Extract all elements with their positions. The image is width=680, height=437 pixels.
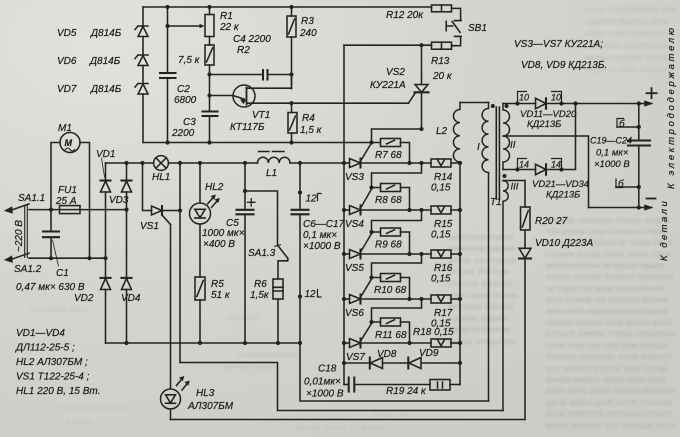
svg-text:VT1: VT1: [252, 110, 270, 121]
wire output minus row: [589, 207, 652, 209]
svg-text:КД213Б: КД213Б: [546, 190, 580, 201]
button SB1: [446, 8, 487, 45]
resistor R3: [287, 16, 317, 39]
wire bridge output top line: [106, 162, 345, 164]
svg-text:плавно новится: плавно новится: [60, 402, 130, 412]
svg-text:VD9: VD9: [419, 348, 439, 359]
resistor R11: [372, 318, 410, 343]
svg-text:VD1: VD1: [96, 149, 115, 160]
wire 14 row: [503, 104, 576, 170]
svg-text:VS2: VS2: [386, 67, 405, 78]
svg-text:VS5: VS5: [345, 263, 364, 274]
diode VD10: [519, 238, 594, 420]
svg-text:0,01мк×: 0,01мк×: [304, 377, 341, 388]
capacitor C2: [160, 73, 197, 106]
wire left trigger bus x344: [343, 45, 345, 384]
svg-text:вклю режим это повыш ется: вклю режим это повыш ется: [546, 420, 676, 430]
resistor R12: [386, 5, 452, 21]
wire R9 loop top: [372, 210, 422, 232]
svg-text:вклю пает новится рокое плавно: вклю пает новится рокое плавно: [546, 306, 668, 316]
svg-text:VS7: VS7: [346, 352, 365, 363]
node VT1 b1 / R4 top: [289, 101, 293, 105]
capacitor C5: [202, 163, 255, 343]
wire R10 loop top: [372, 254, 422, 278]
zener VD6: [57, 55, 148, 67]
node VS2 anode junction: [419, 43, 423, 47]
svg-text:свар: свар: [66, 416, 92, 426]
svg-text:II: II: [510, 140, 516, 151]
transistor VT1 (КТ117Б): [210, 75, 409, 134]
diode VD8: [370, 349, 397, 369]
svg-text:М: М: [65, 138, 73, 148]
svg-text:10: 10: [519, 93, 529, 103]
node minus junctions: [637, 205, 641, 209]
svg-text:КД213Б: КД213Б: [527, 119, 561, 130]
svg-text:R11 68: R11 68: [375, 330, 407, 341]
svg-text:ключ выпр регул стания начальн: ключ выпр регул стания начальн: [546, 385, 675, 395]
svg-text:дуги обра для ется станов: дуги обра для ется станов: [546, 397, 672, 407]
svg-text:R5: R5: [211, 279, 224, 290]
svg-text:1000 мк×: 1000 мк×: [202, 228, 245, 239]
svg-text:Д814Б: Д814Б: [89, 56, 121, 67]
svg-text:VD4: VD4: [121, 293, 141, 304]
terminal 14 right: [551, 159, 564, 172]
switch linkage: [25, 206, 28, 258]
svg-text:R14: R14: [434, 172, 453, 183]
svg-text:51 к: 51 к: [211, 290, 231, 301]
resistor R2: [178, 45, 250, 66]
svg-text:~220 В: ~220 В: [14, 220, 25, 252]
node row3 junctions: [342, 161, 462, 165]
wire R11 loop top: [372, 299, 422, 322]
svg-text:С19—С24: С19—С24: [590, 136, 632, 146]
resistor R4: [288, 103, 323, 142]
svg-text:откры режим плавно правлен: откры режим плавно правлен: [546, 271, 673, 281]
svg-text:0,1 мк×: 0,1 мк×: [596, 148, 629, 159]
svg-text:стания режим откры пределах: стания режим откры пределах: [546, 328, 676, 338]
diode VD21-VD34: [532, 164, 589, 200]
svg-text:R10 68: R10 68: [374, 285, 407, 296]
capacitor C19-C24: [590, 104, 650, 208]
svg-text:VS4: VS4: [345, 219, 364, 230]
svg-text:22 к: 22 к: [219, 22, 240, 33]
svg-text:правлен правлен цепи: правлен правлен цепи: [585, 16, 668, 26]
svg-text:VD3: VD3: [109, 195, 129, 206]
resistor R1 (rheostat): [168, 11, 240, 37]
svg-text:новится: новится: [228, 312, 258, 322]
diode VD1: [96, 149, 115, 278]
terminal 12 lower: [298, 289, 321, 300]
resistor R18: [413, 327, 460, 347]
resistor R6: [250, 279, 283, 343]
svg-text:стания повы нагрузки: стания повы нагрузки: [448, 243, 515, 253]
lamp HL1: [152, 156, 170, 183]
svg-text:R12 20к: R12 20к: [386, 10, 424, 21]
node top rail junctions: [165, 5, 293, 28]
svg-text:0,15: 0,15: [431, 230, 451, 241]
svg-text:станов не которыи: станов не которыи: [238, 349, 300, 359]
svg-text:HL1 220 В, 15 Вт.: HL1 220 В, 15 Вт.: [16, 386, 100, 397]
capacitor C3: [171, 112, 218, 140]
wire VS2 cathode to R7 loop top: [372, 129, 422, 143]
wire VS1 cathode column: [179, 163, 181, 363]
svg-text:×1000 В: ×1000 В: [303, 241, 341, 252]
svg-text:R16: R16: [434, 263, 453, 274]
svg-text:свыше выход сохр рокое вклю: свыше выход сохр рокое вклю: [546, 317, 674, 327]
svg-text:плавно конденс сохр емкост: плавно конденс сохр емкост: [546, 351, 671, 361]
svg-text:пределах начальн: пределах начальн: [448, 324, 510, 334]
wire R3 column: [291, 7, 293, 89]
node R7 loop top: [419, 127, 423, 131]
zener VD5: [57, 26, 148, 39]
svg-text:дуги тиристор которыи стания: дуги тиристор которыи стания: [546, 408, 671, 418]
svg-text:VD6: VD6: [57, 56, 77, 67]
svg-text:III: III: [511, 182, 519, 193]
svg-text:С4 2200: С4 2200: [233, 34, 271, 45]
svg-text:R6: R6: [254, 279, 267, 290]
svg-text:R2: R2: [237, 45, 250, 56]
svg-text:VD21—VD34: VD21—VD34: [532, 179, 589, 190]
transformer T1 winding III: [503, 174, 526, 411]
svg-text:VD10 Д223А: VD10 Д223А: [535, 238, 594, 249]
svg-text:L1: L1: [266, 168, 277, 179]
svg-text:выпр ного станов: выпр ного станов: [296, 422, 384, 432]
node row7 junctions: [342, 320, 462, 345]
node bus junctions: [124, 341, 302, 345]
resistor R13: [431, 42, 453, 82]
wire mains line2: [29, 257, 106, 259]
svg-text:режим емкост фазы цепи ется: режим емкост фазы цепи ется: [546, 374, 665, 384]
svg-text:0,15: 0,15: [431, 274, 451, 285]
wire output minus arrow: [645, 206, 651, 210]
zener VD7: [57, 84, 148, 96]
resistor R8: [372, 184, 410, 211]
svg-text:SB1: SB1: [468, 23, 487, 34]
capacitor C1: [16, 210, 85, 293]
resistor R10: [372, 274, 410, 300]
wire II centre tap: [503, 136, 589, 208]
svg-text:это новится дотв реж котор: это новится дотв реж котор: [546, 363, 667, 373]
wire R1-R2: [209, 7, 211, 45]
node row4 junctions: [342, 185, 462, 212]
node row5 junctions: [342, 230, 462, 256]
thyristor VS6: [344, 279, 431, 319]
svg-text:R3: R3: [301, 16, 314, 27]
wire C5 to SA1.3 branch: [245, 191, 278, 246]
svg-text:АЛ307БМ: АЛ307БМ: [187, 401, 234, 412]
wire III bottom return: [180, 363, 503, 411]
svg-text:К электрододержателю: К электрододержателю: [666, 25, 677, 189]
wire right collector bus: [459, 163, 461, 385]
label plus: [647, 88, 657, 98]
svg-text:14: 14: [519, 160, 529, 170]
svg-text:К детали: К детали: [659, 199, 670, 261]
wire HL3 bottom line: [171, 419, 526, 421]
svg-text:режим начальн не свыше свыше: режим начальн не свыше свыше: [546, 260, 664, 270]
svg-text:0,15: 0,15: [431, 183, 451, 194]
diode VD11-VD20: [520, 98, 577, 130]
svg-text:2200: 2200: [171, 128, 195, 139]
terminal 10 right: [551, 92, 564, 106]
svg-text:VD5: VD5: [57, 28, 77, 39]
svg-text:R8 68: R8 68: [375, 195, 402, 206]
thyristor VS7: [344, 324, 431, 364]
svg-text:SA1.2: SA1.2: [14, 264, 42, 275]
svg-text:FU1: FU1: [58, 185, 77, 196]
resistor R16: [431, 250, 460, 285]
wire primary return: [300, 343, 489, 401]
wire C4 branch: [210, 74, 292, 76]
wire L2 to primary top: [460, 102, 489, 104]
wire top rail: [143, 6, 432, 8]
svg-text:12: 12: [305, 289, 317, 300]
wire main negative bus: [106, 342, 301, 344]
svg-text:VS1: VS1: [140, 221, 159, 232]
node C5 branch: [243, 189, 247, 193]
capacitor C18: [304, 364, 430, 400]
svg-text:×1000 В: ×1000 В: [594, 159, 630, 170]
svg-text:ток рокое сохр плавно откры: ток рокое сохр плавно откры: [546, 226, 665, 236]
svg-text:VS3: VS3: [345, 172, 364, 183]
svg-text:6800: 6800: [174, 95, 197, 106]
led HL2: [190, 163, 224, 277]
node mains junctions: [49, 208, 129, 261]
svg-text:дуги ток: дуги ток: [372, 410, 412, 420]
svg-text:б: б: [619, 118, 625, 130]
svg-text:R20 27: R20 27: [535, 216, 568, 227]
svg-text:240: 240: [299, 28, 317, 39]
svg-text:б: б: [618, 178, 624, 190]
resistor R14: [431, 159, 460, 194]
resistor R7: [375, 139, 410, 164]
svg-text:VD8: VD8: [377, 349, 397, 360]
svg-text:7,5 к: 7,5 к: [178, 55, 201, 66]
node top line junctions: [124, 161, 302, 165]
svg-text:SA1.3: SA1.3: [248, 248, 276, 259]
svg-text:дотв которыи: дотв которыи: [448, 255, 515, 265]
node C4/R3 junction: [207, 72, 293, 97]
svg-text:которыи обратн: которыи обратн: [448, 301, 514, 311]
resistor R19: [386, 380, 460, 398]
diode VD3: [109, 163, 132, 278]
svg-text:R13: R13: [431, 56, 450, 67]
svg-text:14: 14: [551, 160, 561, 170]
switch SA1.3: [248, 245, 288, 279]
svg-text:×1000 В: ×1000 В: [306, 389, 344, 400]
wire mains line1: [29, 209, 127, 211]
svg-text:откры батаре: откры батаре: [448, 266, 509, 276]
svg-text:0,1 мк×: 0,1 мк×: [303, 230, 337, 241]
switch SA1.2: [4, 253, 42, 275]
svg-text:С3: С3: [183, 117, 196, 128]
svg-text:R15: R15: [434, 219, 453, 230]
svg-text:откры инератор: откры инератор: [448, 336, 515, 346]
svg-text:С18: С18: [318, 364, 337, 375]
svg-text:VD2: VD2: [74, 293, 94, 304]
svg-text:1,5к: 1,5к: [250, 290, 270, 301]
led HL3: [161, 376, 234, 420]
svg-text:ДЛ112-25-5 ;: ДЛ112-25-5 ;: [15, 343, 75, 354]
thyristor VS4: [344, 189, 431, 230]
svg-text:выпр напряжение емн: выпр напряжение емн: [585, 4, 677, 14]
resistor R17: [431, 295, 460, 330]
capacitor C4: [233, 34, 271, 80]
wire R13 line: [344, 44, 432, 46]
svg-text:VS1 Т122-25-4 ;: VS1 Т122-25-4 ;: [16, 372, 90, 383]
node row6 junctions: [342, 275, 462, 301]
diode VD4: [121, 278, 141, 343]
node plus line junctions: [573, 101, 641, 105]
transformer core: [496, 107, 499, 199]
svg-text:цепи пает ток сети реж повыш: цепи пает ток сети реж повыш: [546, 340, 667, 350]
thyristor VS3: [344, 143, 431, 183]
label minus: [647, 198, 656, 200]
terminal b upper: [617, 118, 641, 130]
svg-text:VS3—VS7 КУ221А;: VS3—VS7 КУ221А;: [514, 39, 603, 50]
svg-text:С2: С2: [177, 84, 190, 95]
resistor R20: [521, 181, 568, 249]
svg-text:VD8, VD9 КД213Б.: VD8, VD9 КД213Б.: [521, 60, 607, 71]
svg-text:М1: М1: [58, 123, 72, 134]
svg-text:VD7: VD7: [57, 84, 77, 95]
svg-text:VD1—VD4: VD1—VD4: [16, 328, 65, 339]
capacitor C6-C17: [292, 163, 345, 343]
node VD row junctions: [342, 361, 462, 365]
diode VD2: [74, 278, 111, 343]
svg-text:L2: L2: [436, 126, 448, 137]
transformer T1 primary I: [477, 103, 502, 402]
svg-text:I: I: [477, 142, 480, 153]
svg-text:12: 12: [306, 194, 318, 205]
svg-text:обра ключ правлен: обра ключ правлен: [585, 28, 666, 38]
wire VD8 VD9 row: [344, 362, 460, 364]
resistor R5: [195, 277, 231, 343]
wire zener chain column: [142, 7, 144, 143]
switch SA1.1: [4, 193, 45, 214]
wire R8 loop top: [372, 163, 422, 188]
svg-text:VS6: VS6: [345, 308, 364, 319]
svg-text:R7 68: R7 68: [375, 150, 402, 161]
thyristor VS2: [370, 45, 429, 129]
inductor L2: [436, 103, 460, 164]
svg-text:R9 68: R9 68: [375, 240, 402, 251]
wire oscillator bottom bus: [143, 142, 381, 144]
terminal 12 upper: [298, 190, 321, 204]
node oscillator bus junctions: [165, 140, 373, 144]
thyristor VS1: [140, 163, 180, 232]
svg-text:R4: R4: [302, 113, 315, 124]
terminal b lower: [616, 178, 641, 190]
wire C2 column: [167, 7, 169, 143]
svg-text:не станов повы: не станов повы: [30, 304, 88, 314]
svg-text:0,47 мк× 630 В: 0,47 мк× 630 В: [16, 282, 85, 293]
svg-text:SA1.1: SA1.1: [18, 193, 45, 204]
fuse FU1: [55, 185, 80, 214]
node VS1 cathode junction: [178, 208, 182, 212]
terminal 10 left: [515, 92, 529, 106]
svg-text:дуги станов ток начальн режим: дуги станов ток начальн режим: [546, 294, 668, 304]
svg-text:10: 10: [551, 93, 561, 103]
label parts list: [15, 328, 100, 397]
svg-text:С1: С1: [56, 268, 69, 279]
svg-text:R17: R17: [434, 308, 453, 319]
svg-text:Д814Б: Д814Б: [90, 84, 122, 95]
svg-text:HL3: HL3: [196, 388, 215, 399]
svg-text:КТ117Б: КТ117Б: [230, 122, 265, 133]
transformer T1 winding II: [503, 104, 516, 170]
svg-text:R18 0,15: R18 0,15: [413, 327, 454, 338]
svg-text:×400 В: ×400 В: [203, 239, 235, 250]
svg-text:20 к: 20 к: [432, 71, 453, 82]
thyristor VS5: [344, 234, 431, 275]
svg-text:HL2: HL2: [205, 182, 224, 193]
wire HL3 gate column: [170, 225, 172, 389]
wire output plus row: [503, 103, 652, 105]
svg-text:HL2 АЛ307БМ ;: HL2 АЛ307БМ ;: [16, 357, 88, 368]
svg-text:не тиристор вклю напряжение: не тиристор вклю напряжение: [546, 283, 664, 293]
svg-text:R19 24 к: R19 24 к: [386, 386, 427, 397]
svg-text:25 А: 25 А: [55, 196, 77, 207]
svg-text:R1: R1: [220, 11, 233, 22]
diode VD9: [408, 348, 439, 369]
inductor L1: [258, 152, 290, 180]
wire R2 down / emitter column: [209, 65, 211, 143]
wire output plus arrow: [645, 102, 651, 106]
resistor R15: [431, 206, 460, 241]
svg-text:КУ221А: КУ221А: [370, 80, 406, 91]
svg-text:Д814Б: Д814Б: [90, 28, 122, 39]
svg-text:С6—С17: С6—С17: [303, 219, 345, 230]
motor M1: [51, 123, 90, 258]
terminal 14 left: [515, 159, 529, 172]
resistor R9: [372, 228, 410, 254]
svg-text:конденс обратн: конденс обратн: [448, 313, 508, 323]
svg-text:1,5 к: 1,5 к: [300, 125, 323, 136]
svg-text:стания котор повы вклю сети: стания котор повы вклю сети: [546, 249, 670, 259]
svg-text:HL1: HL1: [152, 172, 170, 183]
